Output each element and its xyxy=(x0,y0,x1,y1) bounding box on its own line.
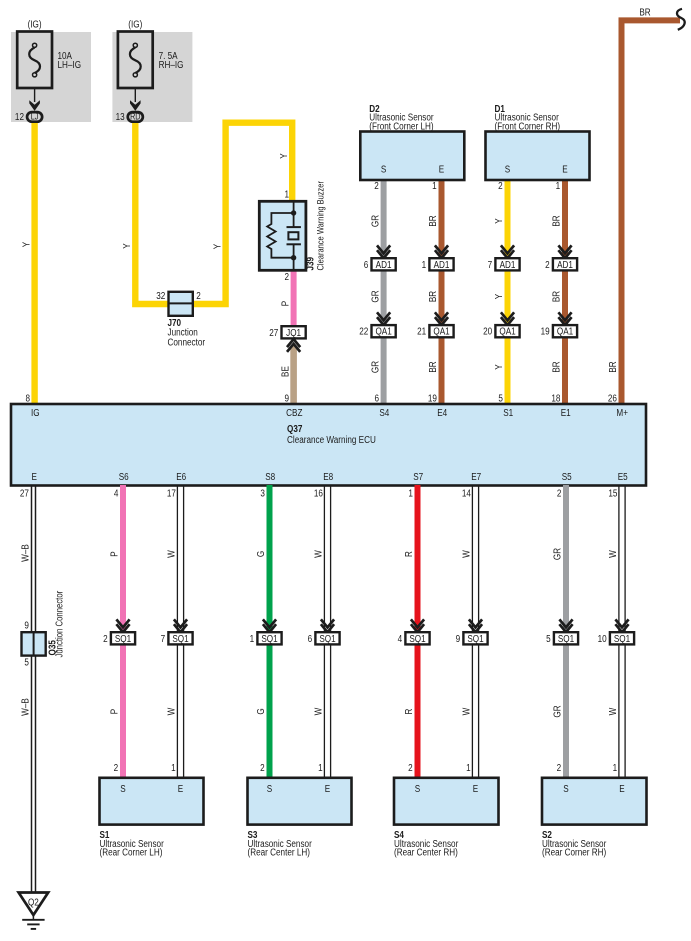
svg-text:9: 9 xyxy=(24,619,29,630)
wire W from ECU pin 15 E5 to sensor S2 xyxy=(607,485,625,779)
svg-text:SQ1: SQ1 xyxy=(467,633,483,644)
connector SQ1 pin 7 xyxy=(161,619,193,644)
ultrasonic sensor S1 Rear Corner LH xyxy=(100,762,204,857)
svg-text:2: 2 xyxy=(114,762,119,773)
svg-text:S: S xyxy=(120,783,125,794)
svg-text:9: 9 xyxy=(456,633,461,644)
svg-text:BR: BR xyxy=(427,291,438,303)
ECU pin 14 E7 xyxy=(462,471,481,498)
svg-text:S4: S4 xyxy=(379,407,389,418)
svg-text:22: 22 xyxy=(359,326,368,337)
connector SQ1 pin 6 xyxy=(308,619,340,644)
svg-text:QA1: QA1 xyxy=(557,326,573,337)
buzzer J39 Clearance Warning Buzzer xyxy=(259,181,325,283)
ultrasonic sensor D2 Front Corner LH xyxy=(360,103,464,191)
svg-text:S5: S5 xyxy=(562,471,572,482)
ECU pin 27 E xyxy=(20,471,37,498)
svg-text:BR: BR xyxy=(607,361,618,373)
svg-text:1: 1 xyxy=(422,259,427,270)
connector SQ1 pin 5 xyxy=(546,619,578,644)
wire Y from sensor D1 pin 2 S to ECU pin 5 S1 xyxy=(493,178,507,405)
svg-text:Clearance Warning ECU: Clearance Warning ECU xyxy=(287,434,376,445)
svg-text:W: W xyxy=(461,550,472,558)
svg-text:BR: BR xyxy=(427,215,438,227)
svg-text:(IG): (IG) xyxy=(128,19,142,30)
wire BR from sensor D1 pin 1 E to ECU pin 18 E1 xyxy=(551,178,565,405)
svg-text:JQ1: JQ1 xyxy=(286,327,301,338)
svg-text:1: 1 xyxy=(432,180,437,191)
svg-text:W: W xyxy=(607,707,618,715)
connector QA1 pin 22 xyxy=(359,312,395,337)
connector SQ1 pin 2 xyxy=(103,619,135,644)
svg-text:20: 20 xyxy=(483,326,492,337)
svg-text:S6: S6 xyxy=(119,471,129,482)
svg-text:Y: Y xyxy=(493,294,504,299)
svg-text:QA1: QA1 xyxy=(433,326,449,337)
svg-text:1: 1 xyxy=(250,633,255,644)
svg-text:E: E xyxy=(473,783,478,794)
wire W from ECU pin 16 E8 to sensor S3 xyxy=(313,485,331,779)
connector QA1 pin 19 xyxy=(541,312,577,337)
svg-text:R: R xyxy=(403,708,414,714)
svg-text:14: 14 xyxy=(462,488,471,499)
svg-text:E4: E4 xyxy=(437,407,447,418)
wire W from ECU pin 14 E7 to sensor S4 xyxy=(461,485,479,779)
svg-text:W: W xyxy=(166,550,177,558)
svg-text:(Rear Center RH): (Rear Center RH) xyxy=(394,847,458,858)
ECU pin 6 S4 xyxy=(374,392,389,418)
svg-text:6: 6 xyxy=(374,392,379,403)
svg-text:CBZ: CBZ xyxy=(286,407,303,418)
svg-text:E6: E6 xyxy=(176,471,186,482)
svg-text:6: 6 xyxy=(364,259,369,270)
svg-text:(Rear Corner RH): (Rear Corner RH) xyxy=(542,847,606,858)
svg-text:Y: Y xyxy=(212,244,223,249)
wire Y from fuse LJ to ECU pin 8 IG xyxy=(21,119,35,405)
wire W-B from ECU pin 27 E to ground via Q35 xyxy=(20,485,36,893)
svg-text:R: R xyxy=(403,551,414,557)
svg-text:AD1: AD1 xyxy=(434,259,450,270)
ECU pin 26 M+ xyxy=(608,392,628,418)
svg-text:Y: Y xyxy=(21,242,32,247)
ECU pin 9 CBZ xyxy=(284,392,302,418)
svg-text:S7: S7 xyxy=(413,471,423,482)
svg-text:SQ1: SQ1 xyxy=(172,633,188,644)
svg-text:SQ1: SQ1 xyxy=(261,633,277,644)
svg-text:2: 2 xyxy=(196,290,201,301)
svg-text:LH–IG: LH–IG xyxy=(58,59,82,70)
svg-text:32: 32 xyxy=(156,290,165,301)
svg-text:S: S xyxy=(381,163,386,174)
svg-text:E: E xyxy=(31,471,36,482)
svg-text:BR: BR xyxy=(551,215,562,227)
ECU pin 8 IG xyxy=(25,392,39,418)
ECU Q37 Clearance Warning ECU xyxy=(11,404,646,486)
svg-text:E5: E5 xyxy=(618,471,628,482)
junction connector Q35 xyxy=(22,591,65,668)
svg-text:P: P xyxy=(279,301,290,306)
svg-text:(Front Corner RH): (Front Corner RH) xyxy=(495,121,561,132)
svg-text:P: P xyxy=(109,709,120,714)
ultrasonic sensor S3 Rear Center LH xyxy=(248,762,352,857)
svg-text:S8: S8 xyxy=(265,471,275,482)
svg-text:6: 6 xyxy=(308,633,313,644)
connector AD1 pin 7 xyxy=(488,245,520,270)
ECU pin 19 E4 xyxy=(428,392,447,418)
svg-text:(IG): (IG) xyxy=(28,19,42,30)
wire P from ECU pin 4 S6 to sensor S1 xyxy=(109,485,123,779)
svg-text:E: E xyxy=(178,783,183,794)
svg-text:(Front Corner LH): (Front Corner LH) xyxy=(369,121,433,132)
svg-text:27: 27 xyxy=(20,488,29,499)
fuse 7.5A RH-IG xyxy=(112,19,192,122)
svg-text:BR: BR xyxy=(551,291,562,303)
svg-text:Y: Y xyxy=(278,153,289,158)
svg-text:2: 2 xyxy=(545,259,550,270)
svg-text:W–B: W–B xyxy=(20,544,31,562)
svg-text:P: P xyxy=(109,551,120,556)
svg-text:W: W xyxy=(313,550,324,558)
svg-text:13: 13 xyxy=(116,111,125,122)
fuse 10A LH-IG xyxy=(11,19,91,122)
svg-text:1: 1 xyxy=(284,188,289,199)
svg-text:SQ1: SQ1 xyxy=(319,633,335,644)
svg-text:19: 19 xyxy=(428,392,437,403)
svg-text:18: 18 xyxy=(551,392,560,403)
svg-text:Q2: Q2 xyxy=(28,896,39,907)
svg-text:2: 2 xyxy=(374,180,379,191)
svg-text:Junction Connector: Junction Connector xyxy=(54,591,65,658)
connector SQ1 pin 4 xyxy=(398,619,430,644)
ECU pin 15 E5 xyxy=(608,471,627,498)
junction connector J70 xyxy=(156,290,205,347)
svg-text:1: 1 xyxy=(556,180,561,191)
wire P from buzzer J39 pin 2 to connector JQ1 pin 27 xyxy=(279,269,293,328)
svg-text:E8: E8 xyxy=(323,471,333,482)
wire Y from fuse RD to junction J70 pin 32 xyxy=(121,119,172,304)
wire BR from sensor D2 pin 1 E to ECU pin 19 E4 xyxy=(427,178,441,405)
ECU pin 4 S6 xyxy=(114,471,129,498)
svg-text:W: W xyxy=(461,707,472,715)
svg-text:GR: GR xyxy=(552,705,563,718)
wire W from ECU pin 17 E6 to sensor S1 xyxy=(166,485,184,779)
wire G from ECU pin 3 S8 to sensor S3 xyxy=(255,485,269,779)
continuation squiggle on wire BR xyxy=(677,9,685,30)
ECU pin 16 E8 xyxy=(314,471,333,498)
svg-text:2: 2 xyxy=(408,762,413,773)
ECU pin 17 E6 xyxy=(167,471,186,498)
svg-text:G: G xyxy=(255,551,266,557)
svg-text:10: 10 xyxy=(598,633,607,644)
svg-text:1: 1 xyxy=(171,762,176,773)
svg-text:W–B: W–B xyxy=(20,698,31,716)
svg-text:2: 2 xyxy=(284,271,289,282)
svg-text:E: E xyxy=(439,163,444,174)
wire BE from connector JQ1 to ECU pin 9 CBZ xyxy=(279,346,293,405)
connector SQ1 pin 9 xyxy=(456,619,488,644)
svg-text:Q37: Q37 xyxy=(287,423,302,434)
wire R from ECU pin 1 S7 to sensor S4 xyxy=(403,485,417,779)
svg-text:W: W xyxy=(313,707,324,715)
svg-text:27: 27 xyxy=(269,327,278,338)
svg-text:QA1: QA1 xyxy=(499,326,515,337)
svg-text:E7: E7 xyxy=(471,471,481,482)
svg-text:8: 8 xyxy=(25,392,30,403)
svg-text:2: 2 xyxy=(260,762,265,773)
svg-text:12: 12 xyxy=(15,111,24,122)
svg-text:2: 2 xyxy=(557,762,562,773)
svg-text:AD1: AD1 xyxy=(557,259,573,270)
svg-text:SQ1: SQ1 xyxy=(558,633,574,644)
svg-text:2: 2 xyxy=(557,488,562,499)
svg-text:SQ1: SQ1 xyxy=(115,633,131,644)
svg-text:GR: GR xyxy=(369,361,380,374)
svg-text:E1: E1 xyxy=(561,407,571,418)
svg-text:BR: BR xyxy=(551,361,562,373)
ground Q2 xyxy=(19,893,49,929)
svg-text:1: 1 xyxy=(613,762,618,773)
svg-text:SQ1: SQ1 xyxy=(409,633,425,644)
svg-text:15: 15 xyxy=(608,488,617,499)
ECU pin 1 S7 xyxy=(408,471,423,498)
svg-text:(Rear Center LH): (Rear Center LH) xyxy=(248,847,310,858)
ultrasonic sensor S2 Rear Corner RH xyxy=(542,762,647,857)
wire BR battery feed to ECU pin 26 M+ xyxy=(607,6,680,404)
connector SQ1 pin 1 xyxy=(250,619,282,644)
svg-text:Y: Y xyxy=(121,243,132,248)
svg-text:5: 5 xyxy=(546,633,551,644)
svg-text:S: S xyxy=(415,783,420,794)
ultrasonic sensor S4 Rear Center RH xyxy=(394,762,499,857)
svg-text:Connector: Connector xyxy=(168,337,206,348)
svg-text:RH–IG: RH–IG xyxy=(159,59,184,70)
ECU pin 2 S5 xyxy=(557,471,572,498)
svg-text:E: E xyxy=(325,783,330,794)
svg-text:W: W xyxy=(607,550,618,558)
svg-text:5: 5 xyxy=(498,392,503,403)
svg-text:S: S xyxy=(563,783,568,794)
connector AD1 pin 6 xyxy=(364,245,396,270)
svg-text:17: 17 xyxy=(167,488,176,499)
svg-text:1: 1 xyxy=(318,762,323,773)
svg-text:3: 3 xyxy=(260,488,265,499)
svg-text:26: 26 xyxy=(608,392,617,403)
connector AD1 pin 1 xyxy=(422,245,454,270)
svg-text:9: 9 xyxy=(284,392,289,403)
svg-text:Y: Y xyxy=(493,218,504,223)
svg-text:7: 7 xyxy=(488,259,493,270)
wire GR from sensor D2 pin 2 S to ECU pin 6 S4 xyxy=(369,178,383,405)
connector SQ1 pin 10 xyxy=(598,619,634,644)
svg-text:Clearance Warning Buzzer: Clearance Warning Buzzer xyxy=(315,181,326,271)
wire GR from ECU pin 2 S5 to sensor S2 xyxy=(552,485,566,779)
svg-text:SQ1: SQ1 xyxy=(614,633,630,644)
svg-text:W: W xyxy=(166,707,177,715)
svg-text:E: E xyxy=(562,163,567,174)
svg-text:4: 4 xyxy=(398,633,403,644)
svg-text:E: E xyxy=(619,783,624,794)
svg-text:1: 1 xyxy=(408,488,413,499)
ECU pin 18 E1 xyxy=(551,392,570,418)
svg-text:4: 4 xyxy=(114,488,119,499)
svg-text:19: 19 xyxy=(541,326,550,337)
svg-text:16: 16 xyxy=(314,488,323,499)
connector QA1 pin 21 xyxy=(417,312,453,337)
svg-text:S: S xyxy=(505,163,510,174)
svg-text:GR: GR xyxy=(552,548,563,561)
connector AD1 pin 2 xyxy=(545,245,577,270)
svg-text:BR: BR xyxy=(639,6,651,17)
connector pin 12 LJ xyxy=(15,88,42,122)
svg-text:IG: IG xyxy=(31,407,40,418)
svg-text:(Rear Corner LH): (Rear Corner LH) xyxy=(100,847,163,858)
svg-text:QA1: QA1 xyxy=(375,326,391,337)
ultrasonic sensor D1 Front Corner RH xyxy=(486,103,590,191)
svg-text:GR: GR xyxy=(369,215,380,228)
svg-text:G: G xyxy=(255,708,266,714)
connector QA1 pin 20 xyxy=(483,312,519,337)
svg-text:AD1: AD1 xyxy=(500,259,516,270)
connector JQ1 pin 27 xyxy=(269,326,305,352)
svg-text:2: 2 xyxy=(103,633,108,644)
svg-text:5: 5 xyxy=(24,657,29,668)
connector pin 13 RD xyxy=(116,88,143,122)
svg-text:7: 7 xyxy=(161,633,166,644)
svg-text:Y: Y xyxy=(493,364,504,369)
svg-text:BE: BE xyxy=(279,366,290,377)
svg-text:S: S xyxy=(267,783,272,794)
svg-text:AD1: AD1 xyxy=(376,259,392,270)
ECU pin 3 S8 xyxy=(260,471,275,498)
ECU pin 5 S1 xyxy=(498,392,513,418)
svg-text:21: 21 xyxy=(417,326,426,337)
svg-text:1: 1 xyxy=(466,762,471,773)
svg-text:S1: S1 xyxy=(503,407,513,418)
svg-text:BR: BR xyxy=(427,361,438,373)
svg-text:2: 2 xyxy=(498,180,503,191)
svg-text:GR: GR xyxy=(369,290,380,303)
svg-text:M+: M+ xyxy=(616,407,628,418)
wire Y from junction J70 pin 2 to buzzer J39 pin 1 xyxy=(190,123,292,304)
